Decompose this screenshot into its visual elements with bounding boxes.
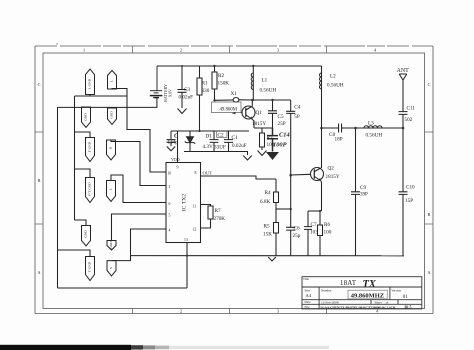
zone tick bottom 3: [326, 309, 328, 314]
svg-text:C10: C10: [406, 185, 415, 191]
capacitor C15 144p: [167, 140, 176, 146]
svg-text:15P: 15P: [405, 198, 413, 204]
svg-text:C7: C7: [311, 222, 317, 228]
wire L3 to antenna line: [382, 127, 403, 129]
svg-text:10: 10: [168, 172, 172, 176]
capacitor C7: [304, 211, 312, 256]
resistor R2: [212, 66, 217, 100]
zone tick left 1: [35, 131, 43, 133]
wire ground bus vertical x57: [57, 107, 59, 288]
svg-text:GND: GND: [109, 241, 113, 249]
svg-text:2: 2: [180, 48, 182, 53]
junction dot R1 rail: [198, 130, 200, 132]
zone tick top 3: [326, 46, 328, 53]
svg-text:12: 12: [193, 228, 197, 232]
junction dot C9 top: [354, 127, 357, 130]
wire P12 to IC pin4: [112, 229, 167, 261]
svg-text:0.56UH: 0.56UH: [366, 133, 383, 139]
wire R4 R5 junction to C4 line: [276, 208, 291, 210]
svg-text:GND: GND: [84, 230, 88, 238]
connector flag P2 L: [108, 71, 117, 90]
svg-text:1815Y: 1815Y: [326, 174, 340, 180]
svg-text:100: 100: [267, 142, 275, 148]
svg-text:F/T GND: F/T GND: [88, 182, 92, 196]
svg-text:L: L: [109, 188, 113, 190]
svg-text:33UF: 33UF: [214, 145, 226, 151]
svg-text:Version: Version: [391, 288, 401, 292]
svg-text:C: C: [38, 82, 41, 87]
svg-text:OUT: OUT: [203, 171, 213, 176]
svg-text:B1.5: B1.5: [405, 305, 412, 309]
svg-text:C11: C11: [407, 106, 416, 112]
wire P7 to bus: [75, 169, 91, 178]
connector flag P4 GND: [108, 108, 117, 125]
junction dot C3 top: [181, 65, 183, 67]
wire P9 to bus: [75, 220, 87, 226]
sheet inner border: [43, 53, 425, 309]
scan artifact black bar bottom: [0, 345, 329, 350]
wire C144p drop: [170, 131, 172, 139]
svg-text:Title: Title: [303, 277, 309, 281]
svg-text:5: 5: [169, 214, 171, 218]
svg-text:3: 3: [277, 309, 279, 314]
antenna ANT: [399, 74, 407, 111]
ground filled for C14: [266, 152, 279, 160]
capacitor C11: [399, 112, 408, 192]
connector flag P9 GND: [82, 226, 91, 247]
capacitor C6: [286, 227, 295, 255]
svg-text:1: 1: [83, 48, 85, 53]
svg-text:0.02uF: 0.02uF: [179, 95, 194, 101]
svg-text:39P: 39P: [360, 193, 368, 198]
junction dot base node: [289, 174, 292, 177]
wire X1 row: [215, 99, 234, 101]
wire row1 horizontal y96: [75, 95, 128, 97]
svg-text:X1: X1: [231, 91, 238, 97]
connector flag P10 GND: [107, 241, 116, 251]
svg-text:9: 9: [177, 166, 179, 170]
capacitor C9: [351, 192, 360, 256]
diode D1 zener: [185, 131, 195, 152]
wire X1 to collector node: [239, 99, 252, 101]
svg-text:B: B: [38, 178, 41, 183]
connector flag P11 T GND: [86, 257, 95, 281]
resistor R7: [208, 206, 213, 219]
svg-text:0.02uF: 0.02uF: [232, 143, 247, 149]
svg-text:4: 4: [374, 48, 377, 53]
svg-text:D1: D1: [206, 134, 213, 140]
wire P2 to IC pin10: [112, 89, 166, 173]
svg-text:C3: C3: [184, 87, 190, 93]
svg-text:1815Y: 1815Y: [252, 121, 266, 127]
svg-text:25p: 25p: [293, 233, 301, 239]
title block frame: [302, 277, 422, 309]
inductor L3: [364, 126, 382, 128]
svg-text:150K: 150K: [218, 81, 230, 87]
battery BT1: [150, 66, 163, 98]
svg-text:R6: R6: [324, 222, 330, 228]
ground for D1 row: [243, 156, 252, 161]
wire P6 to IC pin1: [111, 140, 166, 186]
junction dot ant line: [402, 127, 405, 130]
svg-text:ANT: ANT: [397, 68, 410, 74]
bottom rail y255.6: [131, 255, 404, 257]
pin number 9: [168, 166, 197, 243]
resistor R4: [274, 192, 279, 209]
svg-text:R3: R3: [267, 135, 273, 141]
svg-text:IC TX2: IC TX2: [182, 194, 188, 211]
capacitor C5: [268, 100, 277, 128]
zone tick top 2: [229, 46, 231, 53]
svg-text:S: S: [109, 267, 113, 269]
ground for R3: [258, 151, 267, 156]
IC pin 8 OUT wire: [200, 176, 276, 179]
svg-text:C4: C4: [294, 104, 300, 110]
zone tick right 1: [425, 131, 434, 133]
wire top supply rail y66: [157, 65, 322, 67]
ground rail under D1 row: [184, 152, 248, 156]
svg-text:C6: C6: [294, 226, 300, 232]
svg-text:L1: L1: [262, 78, 268, 84]
zone tick right 2: [425, 223, 434, 225]
svg-text:R7: R7: [215, 208, 221, 214]
svg-text:13: 13: [184, 238, 188, 242]
svg-text:R4: R4: [265, 190, 271, 196]
scan speck top left: [56, 43, 57, 44]
svg-text:of: of: [386, 300, 390, 304]
box around C2 label: [217, 131, 227, 137]
junction dot rail IC13: [186, 255, 188, 257]
zone tick top 1: [132, 46, 134, 53]
svg-text:B: B: [428, 212, 431, 217]
supply row rail y131: [171, 130, 249, 132]
svg-text:GND: GND: [110, 111, 114, 119]
capacitor C8 series: [339, 124, 342, 133]
svg-text:4: 4: [169, 229, 171, 233]
resistor R1: [197, 66, 202, 131]
connector flag P12 S: [107, 261, 116, 276]
svg-text:C9: C9: [360, 185, 366, 191]
svg-text:9.0V: 9.0V: [168, 89, 173, 97]
svg-text:L: L: [110, 80, 114, 82]
junction dot L1 top: [252, 65, 254, 67]
svg-text:11: 11: [193, 205, 197, 209]
junction dot R2 bottom: [213, 99, 215, 101]
svg-text:A: A: [427, 270, 430, 275]
svg-text:F GND: F GND: [88, 141, 92, 152]
capacitor C1: [224, 131, 233, 152]
svg-text:144p: 144p: [168, 140, 179, 146]
capacitor C2: [210, 131, 219, 152]
wire collector node to C4: [252, 99, 291, 101]
connector flag P7 F/T GND: [86, 178, 95, 203]
crystal X1: [233, 98, 239, 103]
zone tick bottom 2: [229, 309, 231, 314]
wire P3 top stub: [85, 106, 87, 109]
wire left bus vertical x74: [74, 96, 76, 220]
svg-text:R: R: [109, 146, 113, 149]
svg-text:330: 330: [202, 88, 210, 94]
svg-text:C5: C5: [278, 114, 284, 120]
ground stub under bottom rail: [268, 257, 276, 261]
wire P10 to IC pin5: [112, 214, 167, 241]
wire Q1 emitter down: [253, 120, 255, 129]
connector flag P8 L: [107, 181, 116, 202]
wire P5 to bus: [75, 132, 91, 138]
title block number value box: [348, 290, 387, 299]
ground for C3: [178, 109, 187, 114]
wire Q2 emitter down: [320, 181, 323, 211]
svg-text:2: 2: [180, 309, 182, 314]
svg-text:A: A: [37, 270, 40, 275]
transistor Q2: [311, 128, 324, 181]
junction dot Q2 collector node: [320, 127, 323, 130]
svg-text:TX: TX: [363, 279, 377, 290]
svg-text:C: C: [428, 82, 431, 87]
connector flag P1 L GND: [86, 69, 95, 95]
ground for C15: [167, 147, 175, 151]
svg-text:8: 8: [195, 171, 197, 175]
svg-text:49.860M: 49.860M: [220, 107, 238, 112]
svg-text:12-Feb-2008: 12-Feb-2008: [321, 301, 339, 305]
connector flag P5 F GND: [86, 138, 95, 162]
svg-text:R1: R1: [202, 81, 208, 87]
capacitor C14 handwritten: [267, 128, 278, 152]
svg-text:502: 502: [405, 117, 413, 123]
svg-text:Q1: Q1: [256, 110, 263, 116]
svg-text:D:\AA-CHUN\TX-PROTEL\99-RC\TX(: D:\AA-CHUN\TX-PROTEL\99-RC\TX(8000)-RC1.…: [321, 305, 396, 309]
base flow arrow: [232, 112, 236, 114]
wire R4 tap from OUT: [275, 179, 277, 192]
wire C3 drop: [181, 66, 183, 89]
svg-text:270K: 270K: [214, 216, 226, 222]
capacitor C3: [178, 90, 187, 109]
svg-text:VDD: VDD: [171, 157, 180, 162]
junction dot R4 R5: [290, 208, 292, 210]
zone tick bottom 1: [132, 309, 134, 314]
svg-text:A4: A4: [306, 293, 312, 298]
svg-text:R2: R2: [218, 73, 224, 79]
battery label BATTERY 9.0V: [163, 84, 173, 102]
box around 49.860M: [212, 102, 242, 113]
capacitor C10: [399, 192, 408, 256]
sheet outer border: [35, 45, 433, 47]
resistor R6: [318, 211, 323, 256]
svg-text:25P: 25P: [278, 121, 286, 127]
IC pin 12 from R7: [200, 219, 211, 228]
resistor R3: [260, 128, 265, 150]
wire Q1 base: [241, 112, 242, 114]
wire P1 to bus: [89, 95, 91, 97]
svg-text:5P: 5P: [294, 114, 300, 120]
wire VDD stub: [177, 131, 179, 163]
inductor L1: [251, 66, 253, 100]
svg-text:File: File: [305, 305, 311, 309]
svg-text:R5: R5: [264, 224, 270, 230]
svg-text:Sheet: Sheet: [375, 300, 382, 304]
wire ground bus horizontal y288: [58, 287, 188, 289]
svg-text:C1: C1: [232, 135, 238, 141]
svg-text:3: 3: [277, 48, 279, 53]
svg-text:6.8K: 6.8K: [260, 199, 270, 205]
svg-text:18P: 18P: [335, 137, 343, 143]
svg-text:01: 01: [403, 295, 409, 300]
connector flag P6 R: [107, 140, 116, 160]
svg-text:L3: L3: [368, 121, 374, 127]
wire emitter row y128: [254, 127, 273, 129]
resistor R5: [274, 209, 279, 256]
svg-text:15K: 15K: [263, 232, 272, 238]
svg-text:C14: C14: [279, 132, 290, 139]
svg-text:0.56UH: 0.56UH: [260, 88, 277, 94]
wire battery minus to ground bus y107: [58, 98, 157, 108]
svg-text:49.860MHZ: 49.860MHZ: [351, 293, 384, 300]
svg-text:T GND: T GND: [88, 261, 92, 272]
svg-text:103: 103: [310, 230, 318, 236]
connector flag P3 GND: [82, 107, 91, 128]
svg-text:L2: L2: [330, 74, 336, 80]
svg-text:100: 100: [324, 230, 332, 236]
wire C9 drop: [355, 128, 357, 191]
svg-text:Date: Date: [305, 300, 312, 304]
IC U1 body: [166, 163, 201, 243]
junction dot C5 top: [271, 99, 273, 101]
capacitor C4: [286, 100, 295, 227]
svg-text:0.56UH: 0.56UH: [327, 83, 344, 89]
svg-text:L GND: L GND: [88, 78, 92, 89]
wire C8 to L3: [342, 127, 364, 129]
svg-text:Q2: Q2: [328, 166, 335, 172]
inductor L2: [320, 66, 322, 128]
svg-text:Number: Number: [321, 288, 332, 292]
svg-text:1: 1: [169, 185, 171, 189]
IC pin 11 to R7: [200, 205, 211, 207]
junction dot collector node: [251, 99, 254, 102]
svg-text:4.3V: 4.3V: [203, 144, 213, 150]
junction dot R2 top: [213, 65, 215, 67]
svg-text:6: 6: [169, 202, 171, 206]
wire P11 stub: [58, 250, 91, 257]
wire Q2 base: [291, 173, 311, 176]
zone tick left 2: [35, 223, 43, 225]
svg-text:GND: GND: [84, 113, 88, 121]
junction dot emitter row: [319, 210, 321, 212]
wire P4 top stub: [111, 107, 113, 108]
svg-text:18AT: 18AT: [340, 280, 357, 287]
IC pin 13 wire down: [186, 243, 188, 289]
transistor Q1: [242, 100, 255, 120]
svg-text:C2: C2: [218, 133, 224, 139]
wire P8 to IC pin6: [111, 175, 166, 203]
wire emitter row y211: [308, 210, 322, 212]
svg-text:100P: 100P: [273, 142, 287, 149]
svg-text:Size: Size: [305, 288, 311, 292]
wire collector row y128: [322, 127, 339, 129]
